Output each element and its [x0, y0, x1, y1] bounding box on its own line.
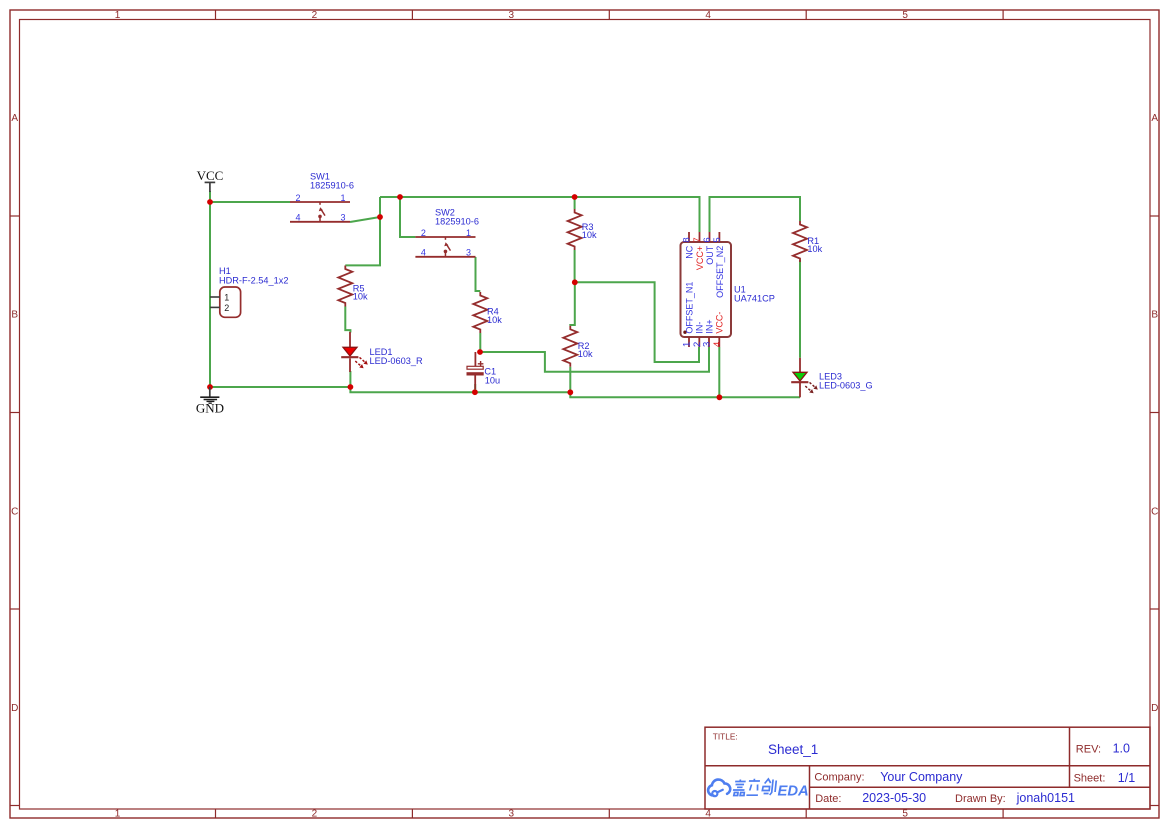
- svg-text:4: 4: [712, 342, 723, 347]
- wire R1 to LED3: [799, 260, 801, 358]
- resistor R3: [568, 209, 597, 250]
- wire LED1 cathode lead: [349, 358, 351, 372]
- wire VCC top rail into U1 pin7: [380, 197, 700, 232]
- svg-text:Sheet:: Sheet:: [1074, 773, 1106, 785]
- svg-text:5: 5: [712, 237, 723, 242]
- svg-text:VCC: VCC: [197, 168, 224, 183]
- switch SW1: [290, 171, 354, 222]
- svg-text:GND: GND: [196, 400, 224, 415]
- svg-text:IN+: IN+: [704, 319, 714, 333]
- svg-text:8: 8: [682, 237, 693, 242]
- wire SW1 out up to rail: [379, 197, 381, 217]
- svg-text:1825910-6: 1825910-6: [435, 216, 479, 226]
- wire VCC to SW1 pin2: [210, 201, 290, 203]
- wire SW1 pin3 diagonal: [350, 217, 380, 222]
- svg-text:C: C: [11, 506, 18, 517]
- svg-text:1: 1: [466, 228, 471, 238]
- switch SW2: [415, 207, 479, 256]
- LED LED1: [341, 347, 423, 369]
- svg-text:1825910-6: 1825910-6: [310, 180, 354, 190]
- op-amp U1: [681, 232, 775, 347]
- wire R4 to C1 node: [479, 333, 481, 352]
- wire C1 node to U1 IN+: [480, 347, 709, 372]
- node R2/GND junction: [567, 389, 573, 395]
- U1 pin names: [684, 245, 724, 333]
- svg-text:REV:: REV:: [1076, 743, 1101, 755]
- svg-text:LED-0603_G: LED-0603_G: [819, 381, 873, 391]
- node SW1 output junction: [377, 214, 383, 220]
- wire U1 VCC- to GND rail: [718, 347, 720, 397]
- svg-text:3: 3: [340, 213, 345, 223]
- wire SW1 out to R5: [345, 217, 380, 265]
- wire SW2 pin3 to R4: [476, 257, 481, 291]
- svg-text:1: 1: [115, 809, 121, 820]
- svg-text:UA741CP: UA741CP: [734, 293, 775, 303]
- svg-text:2023-05-30: 2023-05-30: [862, 791, 926, 805]
- svg-text:3: 3: [509, 809, 515, 820]
- svg-text:10k: 10k: [353, 292, 368, 302]
- svg-text:2: 2: [312, 10, 318, 21]
- wire C1 to GND rail: [474, 384, 476, 392]
- node VCC junction: [207, 199, 213, 205]
- svg-text:VCC+: VCC+: [695, 246, 705, 270]
- svg-text:1.0: 1.0: [1113, 741, 1130, 755]
- capacitor C1: [467, 352, 500, 389]
- wire LED3 anode lead: [799, 358, 801, 373]
- svg-text:EDA: EDA: [778, 783, 809, 799]
- wire R5 to LED1: [345, 307, 350, 333]
- svg-text:2: 2: [295, 193, 300, 203]
- wire R2 to GND rail: [569, 367, 571, 393]
- node rail to R3 junction: [572, 194, 578, 200]
- node R4/C1/IN+ junction: [477, 349, 483, 355]
- wire rail to SW2 pin2: [400, 197, 415, 237]
- svg-text:2: 2: [224, 303, 229, 313]
- svg-text:TITLE:: TITLE:: [713, 732, 738, 742]
- svg-text:10u: 10u: [485, 376, 500, 386]
- wire LED1 to GND rail: [349, 371, 351, 387]
- svg-text:1/1: 1/1: [1118, 771, 1135, 785]
- wire VCC to GND left vertical: [209, 191, 211, 387]
- node rail to SW2 junction: [397, 194, 403, 200]
- svg-text:Drawn By:: Drawn By:: [955, 793, 1006, 805]
- resistor R2: [563, 326, 593, 367]
- title block: [705, 727, 1150, 809]
- svg-text:OFFSET_N1: OFFSET_N1: [684, 282, 694, 334]
- svg-text:4: 4: [705, 10, 711, 21]
- svg-text:10k: 10k: [582, 230, 597, 240]
- node VCC-/GND junction: [717, 394, 723, 400]
- svg-text:jonah0151: jonah0151: [1016, 791, 1075, 805]
- svg-text:D: D: [11, 703, 18, 714]
- svg-text:Your Company: Your Company: [880, 770, 963, 784]
- svg-text:1: 1: [224, 293, 229, 303]
- wire GND bottom rail: [210, 387, 800, 397]
- svg-text:4: 4: [705, 809, 711, 820]
- VCC power flag: [197, 168, 224, 192]
- svg-text:Company:: Company:: [814, 772, 864, 784]
- U1 pin numbers: [682, 237, 723, 347]
- svg-text:1: 1: [115, 10, 121, 21]
- svg-text:Date:: Date:: [815, 793, 841, 805]
- ground GND: [196, 387, 224, 415]
- node GND junction: [207, 384, 213, 390]
- SW1 pin numbers: [295, 193, 345, 223]
- wire node to R2: [570, 282, 575, 326]
- wire LED3 cathode lead: [799, 383, 801, 398]
- svg-text:5: 5: [902, 809, 908, 820]
- node C1/GND junction: [472, 389, 478, 395]
- svg-text:5: 5: [902, 10, 908, 21]
- svg-text:NC: NC: [684, 245, 694, 258]
- svg-text:A: A: [11, 113, 18, 124]
- resistor R4: [473, 292, 502, 333]
- resistor R5: [338, 266, 368, 307]
- svg-text:C: C: [1151, 506, 1158, 517]
- svg-text:OUT: OUT: [705, 245, 715, 264]
- connector H1: [210, 266, 288, 317]
- wire R3 to node: [574, 250, 576, 282]
- SW2 pin numbers: [421, 228, 471, 258]
- svg-text:3: 3: [466, 248, 471, 258]
- wire LED1 anode lead: [349, 332, 351, 348]
- svg-text:D: D: [1151, 703, 1158, 714]
- wire U1 OUT to R1: [710, 197, 801, 232]
- svg-text:Sheet_1: Sheet_1: [768, 742, 818, 757]
- svg-text:2: 2: [421, 228, 426, 238]
- svg-text:HDR-F-2.54_1x2: HDR-F-2.54_1x2: [219, 276, 288, 286]
- node LED1/GND junction: [348, 384, 354, 390]
- resistor R1: [793, 221, 823, 262]
- svg-text:10k: 10k: [578, 349, 593, 359]
- LED LED3: [791, 371, 872, 393]
- JLC EDA logo: [708, 779, 809, 800]
- svg-text:4: 4: [421, 248, 426, 258]
- svg-text:OFFSET_N2: OFFSET_N2: [715, 246, 725, 298]
- svg-text:2: 2: [312, 809, 318, 820]
- svg-text:A: A: [1151, 113, 1158, 124]
- svg-text:1: 1: [340, 193, 345, 203]
- svg-text:3: 3: [509, 10, 515, 21]
- wire rail to R3: [574, 197, 576, 209]
- svg-text:B: B: [1151, 310, 1158, 321]
- svg-text:IN-: IN-: [695, 322, 705, 334]
- node R3/R2/IN- junction: [572, 279, 578, 285]
- svg-text:B: B: [11, 310, 18, 321]
- svg-text:LED-0603_R: LED-0603_R: [370, 356, 423, 366]
- svg-text:10k: 10k: [807, 244, 822, 254]
- wire node to U1 IN-: [575, 282, 699, 362]
- svg-text:4: 4: [295, 213, 300, 223]
- svg-text:10k: 10k: [487, 315, 502, 325]
- svg-text:VCC-: VCC-: [715, 312, 725, 334]
